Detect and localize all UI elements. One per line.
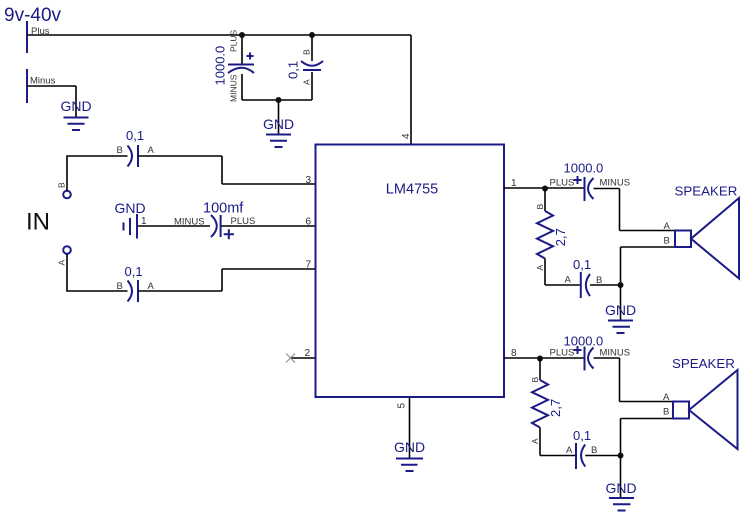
svg-text:0,1: 0,1 bbox=[573, 257, 591, 272]
svg-text:LM4755: LM4755 bbox=[386, 182, 438, 198]
svg-text:GND: GND bbox=[605, 480, 636, 496]
ground GND (supply caps) bbox=[263, 116, 294, 147]
svg-text:1000.0: 1000.0 bbox=[564, 334, 604, 349]
svg-text:A: A bbox=[566, 445, 573, 456]
wire junction to gnd ch1 bbox=[620, 285, 622, 321]
wire minus to ground bbox=[27, 86, 76, 118]
svg-text:5: 5 bbox=[397, 403, 408, 409]
capacitor 100mf (half supply) bbox=[174, 201, 255, 240]
svg-text:A: A bbox=[663, 392, 670, 403]
terminal Plus bbox=[26, 21, 28, 53]
svg-text:GND: GND bbox=[60, 98, 91, 114]
svg-text:PLUS: PLUS bbox=[550, 348, 575, 359]
svg-text:MINUS: MINUS bbox=[174, 217, 205, 228]
terminal Minus bbox=[26, 69, 28, 103]
junction dot bbox=[537, 356, 543, 362]
capacitor C 0,1 (input B) bbox=[117, 128, 155, 167]
svg-text:4: 4 bbox=[401, 133, 412, 139]
svg-text:2,7: 2,7 bbox=[553, 228, 568, 246]
svg-text:2: 2 bbox=[305, 348, 311, 359]
junction dot bbox=[309, 32, 315, 38]
svg-text:A: A bbox=[302, 79, 312, 85]
svg-text:3: 3 bbox=[306, 175, 312, 186]
svg-text:9v-40v: 9v-40v bbox=[4, 5, 62, 26]
svg-text:A: A bbox=[148, 145, 155, 156]
capacitor C 0,1 (input A) bbox=[117, 264, 155, 302]
svg-text:GND: GND bbox=[263, 116, 294, 132]
svg-text:MINUS: MINUS bbox=[600, 348, 631, 359]
junction dot bbox=[276, 97, 282, 103]
wire cap bottoms bbox=[242, 100, 312, 135]
node B (input) bbox=[63, 191, 71, 199]
wire pin 8 bbox=[504, 357, 584, 359]
speaker SPK2 bbox=[663, 356, 738, 449]
svg-text:100mf: 100mf bbox=[203, 201, 244, 217]
svg-text:0,1: 0,1 bbox=[573, 428, 591, 443]
ground GND (pin 5) bbox=[394, 439, 425, 471]
ground GND (100mf) bbox=[114, 200, 145, 239]
svg-text:B: B bbox=[591, 445, 597, 456]
capacitor 1000.0 (supply electrolytic, vertical) bbox=[213, 29, 255, 102]
svg-text:B: B bbox=[663, 407, 669, 418]
svg-text:B: B bbox=[117, 281, 123, 292]
svg-text:PLUS: PLUS bbox=[228, 29, 238, 52]
wire pin 1 bbox=[504, 187, 584, 189]
svg-text:1000.0: 1000.0 bbox=[564, 161, 604, 176]
junction dot bbox=[618, 453, 624, 459]
junction dot bbox=[618, 282, 624, 288]
junction dot bbox=[542, 186, 548, 192]
svg-text:GND: GND bbox=[114, 200, 145, 216]
svg-text:0,1: 0,1 bbox=[126, 128, 144, 143]
svg-text:PLUS: PLUS bbox=[550, 178, 575, 189]
speaker SPK1 bbox=[664, 184, 740, 279]
svg-text:0,1: 0,1 bbox=[286, 61, 301, 79]
svg-text:1000.0: 1000.0 bbox=[213, 46, 228, 86]
svg-text:B: B bbox=[664, 236, 670, 247]
wire node B to C1 bbox=[67, 156, 128, 191]
svg-text:A: A bbox=[57, 260, 67, 266]
svg-text:A: A bbox=[664, 221, 671, 232]
node A (input) bbox=[63, 246, 71, 254]
svg-text:1: 1 bbox=[511, 178, 517, 189]
wire speaker B ch1 bbox=[621, 247, 676, 285]
capacitor 1000.0 (out ch2 electrolytic) bbox=[550, 334, 631, 371]
wire gnd to 100mf bbox=[138, 225, 210, 227]
wire node A to C2 bbox=[67, 254, 128, 291]
wire cap to junction ch2 bbox=[585, 455, 620, 457]
svg-text:B: B bbox=[117, 145, 123, 156]
resistor 2,7 ch2 bbox=[530, 359, 563, 456]
svg-text:SPEAKER: SPEAKER bbox=[675, 184, 738, 199]
pin 5 wire bbox=[409, 398, 411, 459]
wire C2 to pin 7 bbox=[138, 269, 316, 291]
svg-text:B: B bbox=[302, 49, 312, 55]
svg-text:GND: GND bbox=[394, 439, 425, 455]
svg-text:IN: IN bbox=[26, 209, 50, 236]
capacitor 1000.0 (out ch1 electrolytic) bbox=[550, 161, 631, 202]
op-amp IC LM4755 bbox=[316, 145, 505, 398]
wire speaker B ch2 bbox=[621, 419, 674, 456]
svg-text:2,7: 2,7 bbox=[548, 399, 563, 417]
wire cap to speaker A ch2 bbox=[594, 358, 674, 402]
svg-text:Minus: Minus bbox=[30, 76, 56, 87]
pin 2 no-connect bbox=[291, 357, 316, 359]
wire C1 to pin 3 bbox=[138, 156, 316, 184]
svg-text:A: A bbox=[535, 265, 545, 271]
svg-text:A: A bbox=[565, 275, 572, 286]
junction dot bbox=[239, 32, 245, 38]
svg-text:MINUS: MINUS bbox=[600, 178, 631, 189]
svg-text:B: B bbox=[535, 204, 545, 210]
svg-text:8: 8 bbox=[511, 348, 517, 359]
wire R to cap ch1 bbox=[545, 284, 580, 286]
wire R to cap ch2 bbox=[540, 455, 575, 457]
wire 100mf to pin 6 bbox=[222, 225, 316, 227]
svg-text:7: 7 bbox=[306, 260, 312, 271]
svg-text:0,1: 0,1 bbox=[125, 264, 143, 279]
svg-text:MINUS: MINUS bbox=[228, 74, 238, 102]
svg-text:6: 6 bbox=[306, 217, 312, 228]
svg-text:GND: GND bbox=[605, 302, 636, 318]
wire junction to gnd ch2 bbox=[620, 456, 622, 499]
ground GND (ch2) bbox=[605, 480, 636, 511]
capacitor 0.1 (supply bypass, vertical) bbox=[286, 35, 324, 100]
svg-text:SPEAKER: SPEAKER bbox=[672, 356, 735, 371]
svg-text:A: A bbox=[530, 438, 540, 444]
ground GND (ch1) bbox=[605, 302, 636, 333]
wire cap to junction ch1 bbox=[590, 284, 621, 286]
wire V+ rail bbox=[27, 35, 411, 144]
svg-text:B: B bbox=[530, 377, 540, 383]
svg-text:B: B bbox=[57, 182, 67, 188]
capacitor 0,1 (zobel ch2) bbox=[566, 428, 597, 469]
wire cap to speaker A ch1 bbox=[594, 189, 676, 231]
capacitor 0,1 (zobel ch1) bbox=[565, 257, 603, 298]
resistor 2,7 ch1 bbox=[535, 189, 568, 285]
ground GND (minus) bbox=[60, 98, 91, 130]
